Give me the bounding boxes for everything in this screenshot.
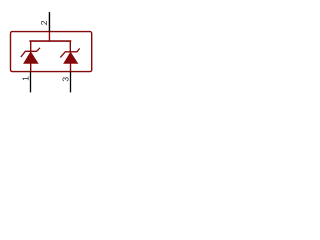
wire: anode lead D2 [70, 63, 72, 71]
zener diode D1 anode triangle [24, 52, 38, 63]
pin 1 [30, 72, 32, 93]
svg-text:1: 1 [21, 76, 31, 81]
wire: cathode lead D2 [69, 41, 71, 52]
wire: drop from box top to rail [48, 32, 50, 42]
zener diode D1 cathode bar [21, 48, 40, 57]
wire: cathode lead D1 [30, 41, 32, 51]
component body box [11, 32, 92, 72]
pin 3 [70, 72, 72, 93]
pin 2 [48, 12, 50, 32]
svg-text:2: 2 [39, 20, 49, 25]
zener diode D2 anode triangle [64, 52, 78, 63]
wire: horizontal rail joining cathodes [29, 40, 71, 42]
wire: anode lead D1 [30, 63, 32, 71]
svg-text:3: 3 [61, 77, 71, 82]
zener diode D2 cathode bar [60, 48, 79, 57]
